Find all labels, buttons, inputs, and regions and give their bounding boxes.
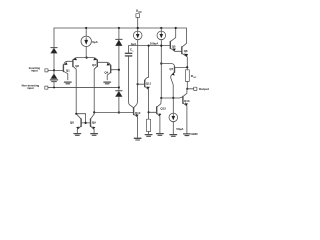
svg-text:Q8: Q8	[70, 121, 74, 125]
wire Q9 collector to Q10 base	[94, 111, 133, 113]
label Q1	[66, 69, 70, 73]
label Q2	[75, 64, 79, 68]
wire rail to CS1	[85, 28, 87, 36]
diode D1 left clamp to VCC	[51, 48, 57, 54]
svg-text:GND: GND	[191, 132, 197, 136]
svg-text:input: input	[27, 86, 34, 90]
label GND	[191, 132, 197, 136]
wire right clamp upper	[118, 28, 120, 39]
label Q6	[184, 49, 188, 53]
svg-text:input: input	[31, 69, 38, 73]
node Q7 base junction	[160, 62, 162, 64]
svg-text:Q1: Q1	[66, 69, 70, 73]
label 6uA	[92, 40, 98, 44]
wire Q8 Q9 base tie with diode connection	[76, 114, 90, 123]
label 100uA	[150, 41, 160, 45]
svg-text:Output: Output	[199, 87, 209, 91]
wire left clamp vertical upper	[53, 28, 55, 48]
diode D2 input clamp stack	[50, 70, 57, 87]
current source CS3 100uA	[157, 31, 166, 40]
node second stage input junction	[118, 111, 120, 113]
label Q12	[160, 106, 166, 110]
node rail junction 6uA	[85, 27, 87, 29]
label Q4	[104, 70, 108, 74]
wire right clamp lower	[118, 87, 120, 112]
label Q7	[169, 67, 173, 71]
label Q8	[70, 121, 74, 125]
node IN+ line end junction	[118, 86, 120, 88]
label Output	[199, 87, 209, 91]
label Non-inverting input	[22, 84, 40, 91]
transistor Q4	[97, 62, 119, 80]
wire R2 to ground	[148, 132, 150, 135]
wire CS3 down second stage	[160, 40, 162, 98]
ground under Q13	[184, 134, 191, 136]
wire inverting input	[48, 69, 63, 71]
ground under Q1	[65, 82, 72, 84]
wire VCC terminal to rail	[137, 17, 139, 31]
label Inverting input	[29, 66, 41, 73]
label Q11	[146, 81, 152, 85]
node Q4 base junction	[118, 69, 120, 71]
svg-text:c: c	[132, 51, 134, 53]
ground under CS4	[170, 135, 177, 137]
wire 50uA upper	[172, 98, 174, 113]
svg-text:Q6: Q6	[184, 49, 188, 53]
label 4uA	[131, 42, 137, 46]
transistor Q9	[90, 112, 95, 133]
ground under Q4	[104, 82, 111, 84]
node rail junction right clamp	[118, 27, 120, 29]
resistor R2	[147, 119, 151, 131]
wire right clamp mid	[118, 46, 120, 88]
transistor Q8	[76, 114, 81, 134]
node output junction	[186, 88, 188, 90]
wire non-inverting input line	[48, 86, 119, 88]
node 50uA junction	[172, 97, 174, 99]
wire Q13 base line	[161, 97, 183, 98]
wire output	[187, 88, 193, 90]
svg-text:Q11: Q11	[146, 81, 152, 85]
node Q11 emitter resistor junction	[148, 111, 150, 113]
svg-text:50μA: 50μA	[176, 127, 184, 131]
terminal inverting input	[45, 69, 48, 72]
ground under Q9	[91, 134, 98, 136]
label Q5	[172, 45, 176, 49]
transistor Q2	[73, 58, 87, 114]
svg-text:Q4: Q4	[104, 70, 108, 74]
svg-text:SC: SC	[193, 77, 196, 79]
current source CS1 6uA	[81, 36, 91, 46]
label RSC	[191, 74, 197, 79]
transistor Q3	[87, 58, 98, 113]
label Q13	[184, 99, 190, 103]
current source CS4 50uA	[169, 113, 178, 122]
transistor Q5	[170, 28, 182, 51]
node Q5 collector rail junction	[175, 27, 177, 29]
resistor RSC	[185, 70, 189, 82]
wire compensation node line	[129, 45, 171, 47]
node Q11 base junction	[137, 83, 139, 85]
wire rail to CS3	[160, 28, 162, 31]
ground under R2	[145, 135, 152, 137]
node input pair emitters	[86, 57, 88, 59]
transistor Q11	[138, 46, 150, 120]
transistor Q1	[63, 61, 73, 80]
ground under Q8	[74, 134, 81, 136]
wire 50uA lower	[172, 122, 174, 135]
node IN- junction	[53, 69, 55, 71]
wire Q11 base node down to Q10 collector	[134, 84, 138, 107]
svg-text:Q9: Q9	[92, 121, 96, 125]
svg-text:Q7: Q7	[169, 67, 173, 71]
label VCC	[136, 9, 142, 14]
diode D3 right clamp to VCC	[116, 39, 123, 45]
svg-text:6μA: 6μA	[92, 40, 98, 44]
label Q10	[135, 111, 141, 115]
svg-text:Q10: Q10	[135, 111, 141, 115]
current source CS2 4uA	[133, 31, 142, 40]
node rail junction VCC input	[137, 27, 139, 29]
svg-text:Q5: Q5	[172, 45, 176, 49]
diode D4 lower clamp	[116, 91, 123, 97]
node Q9 collector junction	[93, 111, 95, 113]
svg-text:100μA: 100μA	[150, 41, 160, 45]
capacitor Cc	[125, 46, 133, 108]
transistor Q12	[149, 98, 162, 133]
label Cc	[130, 48, 134, 53]
svg-text:Q3: Q3	[92, 63, 96, 67]
wire CS2 to Q11 base node	[137, 40, 139, 84]
node Q7 collector RSC junction	[186, 66, 188, 68]
transistor Q7	[171, 67, 188, 98]
wire CS1 to input pair	[85, 46, 87, 57]
wire VCC top rail	[54, 27, 186, 29]
transistor Q10	[134, 108, 139, 138]
node rail junction 100uA	[160, 27, 162, 29]
node Q12 collector junction	[160, 97, 162, 99]
terminal non-inverting input	[45, 86, 48, 89]
wire Q7 base	[161, 64, 174, 67]
svg-text:Q13: Q13	[184, 99, 190, 103]
label 50uA	[176, 127, 184, 131]
ground under Q12	[157, 134, 164, 136]
node left clamp to IN+ line	[53, 87, 55, 89]
label Q9	[92, 121, 96, 125]
node Q8 collector junction	[75, 113, 77, 115]
ground under Q10	[134, 138, 141, 140]
wire left clamp mid	[53, 53, 55, 70]
terminal output	[194, 87, 197, 90]
svg-text:Q12: Q12	[160, 106, 166, 110]
node Q8 collector-base tie	[85, 122, 87, 124]
terminal VCC	[136, 14, 140, 18]
node Q11 collector to comp line	[148, 45, 150, 47]
transistor Q6	[182, 28, 188, 70]
transistor Q13	[183, 89, 188, 134]
wire RSC to output node	[186, 81, 188, 88]
node comp line 100uA junction	[160, 45, 162, 47]
label Q3	[92, 63, 96, 67]
svg-text:Q2: Q2	[75, 64, 79, 68]
